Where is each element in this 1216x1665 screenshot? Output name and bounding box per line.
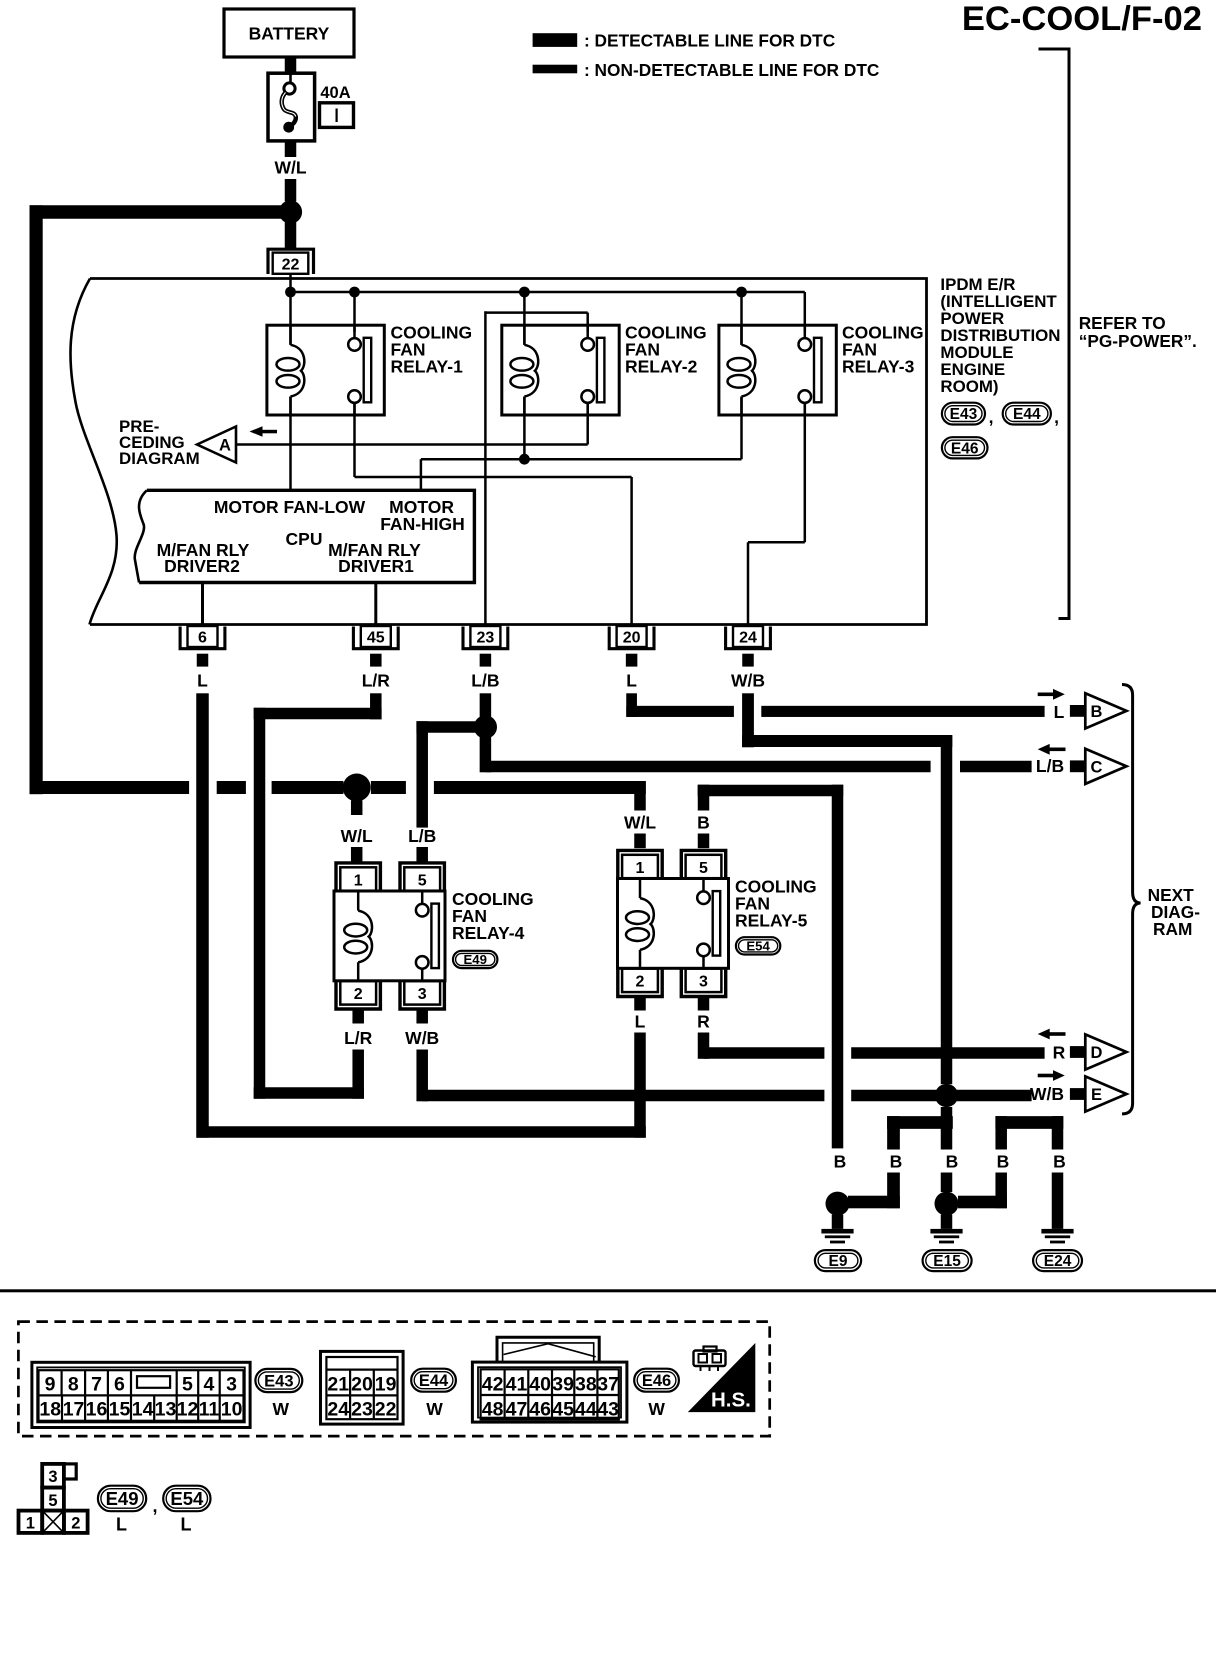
- svg-text:40: 40: [529, 1374, 551, 1396]
- relay COOLING FAN RELAY-3 coil: [740, 325, 743, 345]
- junction dot battery node: [279, 200, 302, 223]
- IPDM E/R box outline: [90, 279, 927, 625]
- wire stub pin L/B: [480, 654, 492, 667]
- relay COOLING FAN RELAY-4 coil: [357, 891, 360, 911]
- svg-text:15: 15: [109, 1399, 131, 1421]
- wire relay2 coil to FAN-HIGH node: [523, 397, 526, 460]
- separator line: [0, 1289, 1216, 1292]
- svg-text:L/R: L/R: [344, 1028, 373, 1048]
- wire B ground bridge U1: [887, 1116, 953, 1129]
- svg-text:W: W: [426, 1399, 443, 1419]
- svg-text:D: D: [1091, 1044, 1103, 1062]
- node W/B ground branch: [935, 1084, 958, 1107]
- bus wire horizontal: [291, 291, 805, 294]
- legend detectable line: [533, 33, 578, 47]
- fuse block box I: [320, 103, 354, 128]
- wire MOTOR FAN-HIGH line: [421, 458, 742, 461]
- relay COOLING FAN RELAY-2 contact: [586, 325, 589, 338]
- svg-text:E43: E43: [264, 1372, 293, 1390]
- wire CPU driver2 to pin 6: [201, 583, 204, 627]
- wire CPU driver1 to pin 45: [374, 583, 377, 627]
- relay COOLING FAN RELAY-5 box: [618, 879, 729, 969]
- svg-text:20: 20: [623, 630, 641, 647]
- svg-text:6: 6: [198, 630, 207, 647]
- svg-text:ROOM): ROOM): [940, 377, 998, 396]
- svg-text:24: 24: [327, 1399, 349, 1421]
- svg-text:22: 22: [375, 1399, 397, 1421]
- svg-text:5: 5: [182, 1374, 193, 1396]
- svg-text:1: 1: [354, 872, 363, 889]
- svg-text:B: B: [834, 1152, 847, 1172]
- svg-text:L/B: L/B: [1036, 756, 1064, 776]
- svg-text:46: 46: [529, 1399, 551, 1421]
- svg-text:E9: E9: [829, 1253, 848, 1270]
- relay COOLING FAN RELAY-1 coil: [289, 325, 292, 345]
- svg-text:13: 13: [155, 1399, 177, 1421]
- connector E54: [736, 937, 780, 954]
- relay COOLING FAN RELAY-5 coil: [639, 879, 642, 899]
- svg-text:,: ,: [989, 407, 994, 427]
- wire R relay5 pin3: [698, 998, 710, 1011]
- relay COOLING FAN RELAY-3 box: [719, 325, 836, 415]
- wire B ground bridge U2: [995, 1116, 1063, 1129]
- connector relay5 pin 2: [622, 969, 658, 992]
- svg-text:E46: E46: [951, 440, 979, 457]
- svg-text:38: 38: [575, 1374, 597, 1396]
- svg-text:L: L: [116, 1515, 127, 1535]
- connector E43: [942, 403, 985, 425]
- svg-text:23: 23: [477, 630, 495, 647]
- dashed detail box: [18, 1322, 769, 1437]
- svg-text:5: 5: [418, 872, 427, 889]
- svg-text:10: 10: [221, 1399, 243, 1421]
- wire relay1 contact to pin 20: [353, 403, 356, 477]
- connector face E44: [321, 1351, 404, 1424]
- battery: [224, 9, 354, 57]
- node bus-relay2 coil: [519, 287, 530, 298]
- svg-text:45: 45: [367, 630, 385, 647]
- wire stub pin L: [626, 654, 638, 667]
- svg-text:40A: 40A: [320, 84, 350, 102]
- arrow to C: [1050, 748, 1066, 752]
- svg-text:E46: E46: [642, 1372, 671, 1390]
- svg-text:E49: E49: [106, 1488, 139, 1509]
- H.S. connector icon: [694, 1351, 726, 1367]
- wire L/B branch to relay4 pin5: [416, 721, 485, 733]
- wire W/L fuse to junction: [285, 140, 297, 158]
- svg-text:4: 4: [204, 1374, 215, 1396]
- connector pin 45: [361, 626, 391, 647]
- wire thick to left edge: [30, 205, 291, 219]
- svg-text:: DETECTABLE LINE FOR DTC: : DETECTABLE LINE FOR DTC: [584, 31, 835, 51]
- connector E46 oval: [634, 1369, 679, 1392]
- wire bus from 22: [289, 274, 292, 292]
- svg-text:B: B: [890, 1152, 903, 1172]
- wire W/B relay4 pin3: [416, 1010, 428, 1023]
- wire W/L main line: [30, 781, 190, 794]
- relay COOLING FAN RELAY-1 box: [267, 325, 384, 415]
- svg-text:L/B: L/B: [471, 671, 499, 691]
- svg-text:A: A: [219, 437, 231, 455]
- svg-text:21: 21: [327, 1374, 349, 1396]
- relay COOLING FAN RELAY-2 box: [502, 325, 619, 415]
- wire L/B pin23 down: [480, 693, 492, 772]
- svg-text:3: 3: [699, 974, 708, 991]
- relay COOLING FAN RELAY-5 contact: [702, 879, 705, 892]
- node L/B junction: [474, 715, 497, 738]
- wire L pin20 to triangle B: [626, 693, 637, 717]
- next diagram brace: [1122, 685, 1141, 1114]
- off-page triangle B: [1070, 705, 1085, 717]
- ground E15: [935, 1192, 959, 1216]
- ground E9: [826, 1192, 850, 1216]
- svg-text:2: 2: [71, 1514, 80, 1532]
- wire bus to relay1 contact: [353, 292, 356, 332]
- wire relay1 coil to CPU MOTOR FAN-LOW: [289, 397, 292, 491]
- connector pin 22 (IPDM top): [273, 253, 309, 274]
- wire relay2 contact to pin 23: [586, 313, 589, 332]
- svg-text:23: 23: [351, 1399, 373, 1421]
- svg-text:8: 8: [68, 1374, 79, 1396]
- svg-text:48: 48: [482, 1399, 504, 1421]
- arrow to B: [1038, 693, 1054, 697]
- wire W/B line to triangle E: [422, 1090, 824, 1102]
- svg-text:2: 2: [354, 986, 363, 1003]
- relay COOLING FAN RELAY-4 contact: [421, 891, 424, 904]
- svg-text:E54: E54: [170, 1488, 204, 1509]
- svg-text:L/R: L/R: [362, 671, 391, 691]
- svg-text:RAM: RAM: [1153, 919, 1192, 939]
- svg-text:,: ,: [152, 1496, 157, 1516]
- connector face E43: [32, 1362, 250, 1427]
- svg-text:W: W: [648, 1399, 665, 1419]
- node W/L relay4 branch: [343, 774, 371, 802]
- off-page triangle E: [1070, 1088, 1085, 1100]
- svg-text:B: B: [1053, 1152, 1066, 1172]
- off-page triangle C: [1070, 760, 1085, 772]
- wire R line to triangle D: [704, 1047, 825, 1059]
- connector pin 24: [733, 626, 763, 647]
- svg-text:RELAY-1: RELAY-1: [391, 357, 464, 377]
- svg-text:L: L: [181, 1515, 192, 1535]
- wire L pin6 vertical: [196, 693, 209, 1137]
- svg-text:2: 2: [636, 974, 645, 991]
- relay COOLING FAN RELAY-3 contact: [804, 325, 807, 338]
- connector pin 6: [188, 626, 218, 647]
- svg-text:C: C: [1091, 758, 1103, 776]
- svg-text:BATTERY: BATTERY: [249, 24, 330, 44]
- svg-text:RELAY-3: RELAY-3: [842, 357, 915, 377]
- svg-text:L: L: [197, 671, 208, 691]
- wire relay3 contact to pin 24: [804, 403, 807, 542]
- connector relay4 pin 3: [404, 981, 440, 1004]
- svg-text:3: 3: [418, 986, 427, 1003]
- off-page triangle D: [1070, 1046, 1085, 1058]
- svg-text:5: 5: [48, 1492, 57, 1510]
- connector E46: [942, 437, 988, 458]
- svg-text:1: 1: [26, 1514, 35, 1532]
- wire L/R pin45 to left drop: [370, 693, 382, 719]
- svg-text:RELAY-5: RELAY-5: [735, 911, 808, 931]
- svg-text:39: 39: [552, 1374, 574, 1396]
- svg-text:9: 9: [45, 1374, 56, 1396]
- svg-text:E54: E54: [746, 939, 770, 954]
- node bus-relay3 coil: [736, 287, 747, 298]
- svg-text:REFER TO: REFER TO: [1079, 313, 1166, 333]
- svg-text:17: 17: [63, 1399, 85, 1421]
- svg-text:W/L: W/L: [274, 158, 306, 178]
- svg-text:L/B: L/B: [408, 826, 436, 846]
- svg-text:B: B: [1091, 703, 1103, 721]
- svg-text:FAN-HIGH: FAN-HIGH: [380, 514, 465, 534]
- wire stub pin L/R: [370, 654, 382, 667]
- svg-text:W/B: W/B: [731, 671, 765, 691]
- wire bus to relay1 coil: [289, 292, 292, 345]
- svg-text:R: R: [1053, 1043, 1066, 1063]
- connector E44: [1003, 403, 1051, 425]
- wire W/L to relay4 pin1: [351, 801, 363, 816]
- svg-text:B: B: [697, 813, 710, 833]
- arrow preceding direction: [262, 430, 277, 434]
- svg-text:14: 14: [132, 1399, 154, 1421]
- wire relay3 coil to FAN-HIGH line: [740, 397, 743, 460]
- svg-text:44: 44: [575, 1399, 597, 1421]
- connector face E46: [472, 1362, 627, 1422]
- wire battery to fuse: [285, 57, 297, 74]
- svg-text:W/B: W/B: [405, 1028, 439, 1048]
- svg-text:W/B: W/B: [1030, 1084, 1064, 1104]
- connector pin 23: [470, 626, 500, 647]
- connector E54 oval: [163, 1486, 210, 1512]
- connector relay5 pin 5: [686, 855, 722, 878]
- connector E49 oval: [98, 1486, 146, 1512]
- connector relay4 pin 1: [340, 867, 376, 890]
- wire L/B line to triangle C: [485, 761, 930, 773]
- relay footprint pin layout: [42, 1464, 64, 1488]
- svg-text:L: L: [626, 671, 637, 691]
- svg-text:RELAY-2: RELAY-2: [625, 357, 698, 377]
- svg-text:W/L: W/L: [624, 813, 656, 833]
- svg-text:11: 11: [199, 1399, 220, 1421]
- svg-text:5: 5: [699, 860, 708, 877]
- svg-text:H.S.: H.S.: [711, 1389, 751, 1412]
- svg-text:3: 3: [48, 1468, 57, 1486]
- svg-text:L: L: [1054, 702, 1065, 722]
- wire W/L to relay5 pin1: [634, 781, 646, 810]
- svg-text:45: 45: [552, 1399, 574, 1421]
- svg-text:DRIVER2: DRIVER2: [164, 556, 240, 576]
- svg-text:6: 6: [114, 1374, 125, 1396]
- relay COOLING FAN RELAY-1 contact: [353, 325, 356, 338]
- svg-text:L: L: [635, 1012, 646, 1032]
- refer bracket: [1039, 49, 1070, 619]
- wire bus to relay2 coil: [523, 292, 526, 345]
- svg-text:DRIVER1: DRIVER1: [338, 556, 414, 576]
- wire junction to connector 22: [285, 222, 297, 248]
- svg-text:16: 16: [86, 1399, 108, 1421]
- wire bus to relay3 coil: [740, 292, 743, 345]
- connector relay4 pin 5: [404, 867, 440, 890]
- svg-text:E49: E49: [463, 952, 486, 967]
- fuse 40A fusible link: [268, 73, 315, 141]
- connector relay5 pin 3: [686, 969, 722, 992]
- svg-text:24: 24: [739, 630, 757, 647]
- wire L relay5 pin2 stub: [634, 998, 646, 1011]
- relay COOLING FAN RELAY-2 coil: [523, 325, 526, 345]
- node bus-relay1 coil: [285, 287, 296, 298]
- svg-text:E: E: [1091, 1086, 1102, 1104]
- svg-text:E44: E44: [419, 1372, 449, 1390]
- off-page triangle A: [197, 427, 236, 463]
- wire B center to E15: [941, 1107, 953, 1150]
- svg-text:E44: E44: [1013, 406, 1041, 423]
- wire stub pin W/B: [742, 654, 754, 667]
- wire left vertical main feed: [30, 205, 43, 794]
- svg-text:22: 22: [282, 257, 300, 274]
- svg-text:19: 19: [375, 1374, 397, 1396]
- svg-text:CPU: CPU: [286, 529, 323, 549]
- svg-text:MOTOR FAN-LOW: MOTOR FAN-LOW: [214, 497, 366, 517]
- svg-text:B: B: [946, 1152, 959, 1172]
- CPU box: [139, 490, 474, 582]
- connector E44 oval: [411, 1369, 456, 1392]
- svg-text:42: 42: [482, 1374, 504, 1396]
- wire bus to relay3 contact: [804, 292, 807, 332]
- connector E43 oval: [255, 1369, 302, 1392]
- svg-text:W/L: W/L: [341, 826, 373, 846]
- svg-text:47: 47: [506, 1399, 528, 1421]
- wire stub pin L: [197, 654, 209, 667]
- wire L/R relay4 pin2 stub: [352, 1010, 364, 1023]
- svg-text:1: 1: [636, 860, 645, 877]
- svg-text:20: 20: [351, 1374, 373, 1396]
- connector pin 20: [617, 626, 647, 647]
- svg-text:7: 7: [91, 1374, 102, 1396]
- connector relay5 pin 1: [622, 855, 658, 878]
- svg-text:18: 18: [39, 1399, 61, 1421]
- node FAN-HIGH relay2 coil: [519, 454, 530, 465]
- svg-text:RELAY-4: RELAY-4: [452, 923, 525, 943]
- svg-text:“PG-POWER”.: “PG-POWER”.: [1079, 331, 1197, 351]
- wire L/R to relay4 pin2: [254, 1087, 364, 1099]
- svg-text:DIAGRAM: DIAGRAM: [119, 449, 200, 468]
- svg-text:3: 3: [226, 1374, 237, 1396]
- svg-text:B: B: [997, 1152, 1010, 1172]
- connector relay4 pin 2: [340, 981, 376, 1004]
- svg-text:E15: E15: [933, 1253, 961, 1270]
- svg-text:41: 41: [506, 1374, 528, 1396]
- svg-text:12: 12: [177, 1399, 199, 1421]
- svg-text:E43: E43: [950, 406, 978, 423]
- wire W/B pin24 down right drop: [742, 693, 754, 747]
- svg-text:EC-COOL/F-02: EC-COOL/F-02: [962, 0, 1202, 38]
- connector E49: [453, 951, 497, 968]
- node bus-relay1 contact: [349, 287, 360, 298]
- arrow to E: [1038, 1074, 1054, 1078]
- arrow to D: [1050, 1032, 1066, 1036]
- svg-text:R: R: [697, 1012, 710, 1032]
- svg-text:37: 37: [597, 1374, 619, 1396]
- legend non-detectable line: [533, 65, 578, 74]
- wire B to E24: [1052, 1116, 1064, 1149]
- wire relay2 contact to preceding diagram A: [586, 403, 589, 445]
- H.S. mark: [688, 1343, 756, 1412]
- ground E24: [1041, 1229, 1073, 1234]
- relay COOLING FAN RELAY-4 box: [334, 891, 445, 981]
- svg-text:: NON-DETECTABLE LINE FOR DTC: : NON-DETECTABLE LINE FOR DTC: [584, 60, 879, 80]
- svg-text:E24: E24: [1044, 1253, 1072, 1270]
- wire L bottom horizontal to relay5 pin2: [197, 1126, 646, 1138]
- svg-text:W: W: [273, 1399, 290, 1419]
- svg-text:43: 43: [597, 1399, 619, 1421]
- svg-text:,: ,: [1054, 407, 1059, 427]
